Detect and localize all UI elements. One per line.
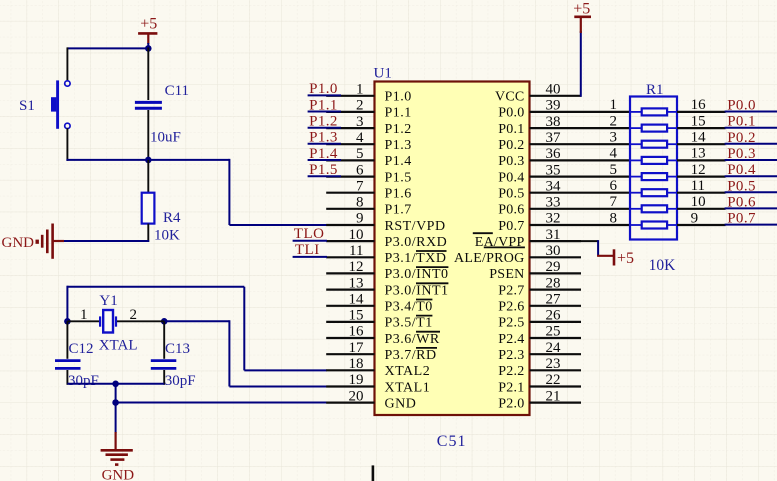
svg-text:P1.2: P1.2 (309, 114, 338, 130)
wire net TLO (293, 240, 327, 242)
svg-text:XTAL: XTAL (99, 337, 138, 353)
wire net P0.3 (725, 159, 777, 161)
svg-text:P1.5: P1.5 (309, 162, 338, 178)
svg-text:2: 2 (356, 98, 364, 114)
wire down to Y1 pin 1 (66, 286, 68, 322)
pin 17 (P3.7/RD) (326, 340, 436, 363)
pin 15 (P3.5/T1) (326, 308, 433, 331)
resistor R1 element 8 (610, 210, 699, 228)
overline pin 15 (416, 315, 432, 317)
overline PROG (pin 30) (484, 246, 525, 248)
junction Y1 pin 2 node (161, 318, 168, 325)
svg-text:P1.7: P1.7 (385, 203, 412, 218)
svg-text:P0.0: P0.0 (727, 98, 756, 114)
svg-text:P0.7: P0.7 (498, 219, 524, 234)
pin 40 (VCC) (495, 82, 582, 105)
pin 20 (GND) (326, 388, 416, 411)
wire R1 pin 15 (677, 127, 726, 129)
pin 3 (P1.2) (326, 114, 412, 137)
svg-text:15: 15 (691, 113, 706, 129)
overline pin 14 (416, 299, 432, 301)
svg-text:34: 34 (546, 178, 562, 194)
svg-text:13: 13 (349, 275, 364, 291)
resistor R1 element 3 (610, 130, 707, 148)
svg-text:29: 29 (546, 259, 561, 275)
wire R4 to GND (53, 240, 150, 242)
svg-text:P1.4: P1.4 (309, 146, 338, 162)
overline EA (pin 31) (473, 232, 493, 234)
wire net P1.1 (308, 111, 341, 113)
wire down to XTAL1 (228, 320, 230, 386)
svg-text:PSEN: PSEN (489, 267, 524, 282)
svg-text:+5: +5 (140, 16, 157, 33)
svg-text:P0.6: P0.6 (498, 203, 524, 218)
junction GND wire crossing (112, 399, 119, 406)
pin 31 (EA/VPP) (475, 227, 581, 250)
svg-text:+5: +5 (573, 1, 590, 18)
wire to pin 19 XTAL1 (229, 386, 327, 388)
svg-text:10K: 10K (154, 228, 180, 244)
svg-text:P0.4: P0.4 (727, 162, 756, 178)
svg-text:8: 8 (356, 195, 364, 211)
svg-text:30pF: 30pF (165, 373, 196, 389)
wire net P0.6 (725, 207, 777, 209)
pin 30 (ALE/PROG) (454, 243, 581, 266)
svg-text:U1: U1 (374, 66, 392, 82)
junction crystal gnd node (112, 381, 119, 388)
svg-text:20: 20 (349, 388, 364, 404)
pin 35 (P0.4) (498, 162, 630, 185)
svg-text:3: 3 (610, 130, 618, 146)
svg-text:31: 31 (546, 227, 561, 243)
wire from S1 pin 2 (66, 128, 68, 161)
pin 11 (P3.1/TXD) (326, 243, 446, 266)
svg-text:P0.4: P0.4 (498, 170, 524, 185)
wire net P0.5 (725, 191, 777, 193)
wire EA/VPP net (581, 240, 598, 242)
resistor R1 element 2 (610, 113, 706, 131)
svg-text:P0.2: P0.2 (498, 138, 524, 153)
svg-text:7: 7 (356, 178, 364, 194)
svg-text:15: 15 (349, 308, 364, 324)
svg-text:P0.7: P0.7 (727, 211, 756, 227)
pin 27 (P2.6) (498, 292, 581, 315)
svg-text:30: 30 (546, 243, 561, 259)
svg-text:32: 32 (546, 211, 561, 227)
svg-text:3: 3 (356, 114, 364, 130)
svg-text:6: 6 (356, 162, 364, 178)
svg-text:GND: GND (102, 468, 135, 481)
svg-text:8: 8 (610, 210, 618, 226)
svg-text:P1.3: P1.3 (385, 138, 412, 153)
junction +5 node (145, 45, 152, 52)
svg-text:30pF: 30pF (68, 373, 99, 389)
wire C12-C13 bottom (67, 383, 164, 385)
svg-text:P3.7/RD: P3.7/RD (385, 348, 437, 363)
resistor R1 element 5 (610, 162, 706, 180)
wire net P0.7 (725, 224, 777, 226)
wire to pin 20 GND (116, 402, 327, 404)
capacitor C12 (55, 321, 81, 385)
svg-text:ALE/PROG: ALE/PROG (454, 251, 524, 266)
svg-text:P0.0: P0.0 (498, 106, 524, 121)
wire R1 pin 11 (677, 192, 726, 194)
pin 18 (XTAL2) (326, 356, 430, 379)
wire R1 pin 12 (677, 176, 726, 178)
wire net P1.2 (308, 127, 341, 129)
svg-text:5: 5 (610, 162, 618, 178)
svg-text:28: 28 (546, 275, 561, 291)
svg-text:P2.4: P2.4 (498, 332, 524, 347)
wire reset node horizontal (66, 159, 229, 161)
svg-text:P0.6: P0.6 (727, 194, 756, 210)
svg-text:P1.3: P1.3 (309, 130, 338, 146)
wire to pin 9 RST (229, 224, 327, 226)
svg-text:XTAL1: XTAL1 (385, 380, 431, 395)
svg-text:P2.6: P2.6 (498, 300, 524, 315)
svg-text:10uF: 10uF (150, 130, 181, 146)
svg-text:9: 9 (356, 211, 364, 227)
svg-text:C51: C51 (437, 433, 467, 450)
svg-text:21: 21 (546, 388, 561, 404)
svg-text:10K: 10K (649, 257, 677, 274)
wire down to RST (228, 159, 230, 225)
wire crystal top (67, 286, 244, 288)
svg-text:P0.2: P0.2 (727, 130, 756, 146)
ground GND (bottom earth) (101, 432, 133, 465)
svg-text:TLI: TLI (295, 242, 320, 258)
svg-text:P2.5: P2.5 (498, 316, 524, 331)
power +5 (top right) (573, 1, 591, 33)
svg-text:39: 39 (546, 98, 561, 114)
op-amp U1 body (C51 MCU) (375, 82, 530, 416)
wire net P0.0 (725, 111, 777, 113)
svg-text:26: 26 (546, 308, 562, 324)
resistor R4 (142, 160, 155, 242)
pin 28 (P2.7) (498, 275, 581, 298)
pin 5 (P1.4) (326, 146, 412, 169)
pin 22 (P2.1) (498, 372, 581, 395)
wire net P0.2 (725, 143, 777, 145)
pin 6 (P1.5) (326, 162, 412, 185)
svg-text:36: 36 (546, 146, 562, 162)
wire net P1.5 (308, 175, 341, 177)
svg-text:33: 33 (546, 195, 561, 211)
svg-text:6: 6 (610, 178, 618, 194)
svg-text:P3.6/WR: P3.6/WR (385, 332, 440, 347)
svg-text:25: 25 (546, 324, 561, 340)
svg-text:40: 40 (546, 82, 561, 98)
pin 34 (P0.5) (498, 178, 630, 201)
svg-text:P1.0: P1.0 (309, 81, 338, 97)
svg-text:TLO: TLO (294, 226, 325, 242)
switch S1 (51, 80, 70, 128)
svg-text:P1.2: P1.2 (385, 122, 412, 137)
svg-text:XTAL2: XTAL2 (385, 364, 431, 379)
svg-text:P2.3: P2.3 (498, 348, 524, 363)
pin 9 (RST/VPD) (326, 211, 445, 234)
pin 21 (P2.0) (498, 388, 581, 411)
overline pin 12 (416, 266, 448, 268)
wire net P0.1 (725, 127, 777, 129)
pin 19 (XTAL1) (326, 372, 430, 395)
pin 26 (P2.5) (498, 308, 581, 331)
svg-text:+5: +5 (617, 250, 634, 267)
svg-text:P0.3: P0.3 (498, 154, 524, 169)
pin 7 (P1.6) (326, 178, 412, 201)
svg-text:23: 23 (546, 356, 561, 372)
junction reset node (145, 157, 152, 164)
svg-text:P3.1/TXD: P3.1/TXD (385, 251, 447, 266)
svg-text:5: 5 (356, 146, 364, 162)
pin 14 (P3.4/T0) (326, 292, 433, 315)
svg-text:14: 14 (349, 292, 365, 308)
pin 29 (PSEN) (489, 259, 581, 282)
wire R1 pin 9 (677, 224, 726, 226)
power +5 (left) (138, 16, 157, 44)
svg-text:P2.7: P2.7 (498, 283, 524, 298)
pin 16 (P3.6/WR) (326, 324, 440, 347)
svg-text:P1.0: P1.0 (385, 90, 412, 105)
overline pin 17 (416, 347, 437, 349)
wire VCC to +5 (580, 31, 582, 97)
svg-text:C11: C11 (165, 83, 189, 99)
wire +5 stub (147, 43, 149, 48)
svg-text:2: 2 (610, 113, 618, 129)
svg-text:P1.1: P1.1 (309, 97, 338, 113)
svg-text:P1.5: P1.5 (385, 170, 412, 185)
svg-text:P3.0/INT1: P3.0/INT1 (385, 283, 449, 298)
svg-text:P0.5: P0.5 (727, 178, 756, 194)
svg-text:P3.4/T0: P3.4/T0 (385, 300, 433, 315)
svg-text:S1: S1 (19, 98, 35, 114)
wire net P1.3 (308, 143, 341, 145)
pin 2 (P1.1) (326, 98, 412, 121)
pin 36 (P0.3) (498, 146, 630, 169)
svg-text:7: 7 (610, 194, 618, 210)
svg-text:17: 17 (349, 340, 365, 356)
svg-text:38: 38 (546, 114, 561, 130)
svg-text:4: 4 (610, 146, 618, 162)
wire down toward GND (115, 384, 117, 433)
svg-text:RST/VPD: RST/VPD (385, 219, 446, 234)
wire EA down (597, 240, 599, 256)
resistor R1 element 7 (610, 194, 706, 212)
svg-text:VCC: VCC (495, 90, 525, 105)
resistor R1 element 6 (610, 178, 706, 196)
wire R1 pin 16 (677, 111, 726, 113)
svg-text:P3.0/RXD: P3.0/RXD (385, 235, 448, 250)
svg-text:GND: GND (385, 396, 417, 411)
pin 38 (P0.1) (498, 114, 630, 137)
svg-text:P1.1: P1.1 (385, 106, 412, 121)
svg-text:P2.1: P2.1 (498, 380, 524, 395)
svg-text:4: 4 (356, 130, 364, 146)
svg-text:P2.0: P2.0 (498, 396, 524, 411)
svg-text:24: 24 (546, 340, 562, 356)
svg-text:12: 12 (349, 259, 364, 275)
resistor R1 element 4 (610, 146, 706, 164)
wire net P0.4 (725, 175, 777, 177)
svg-text:10: 10 (349, 227, 364, 243)
junction Y1 pin 1 node (64, 318, 71, 325)
ground GND (left power ground) (36, 224, 65, 259)
svg-text:18: 18 (349, 356, 364, 372)
pin 8 (P1.7) (326, 195, 412, 218)
resistor network R1 box (630, 97, 677, 240)
svg-text:1: 1 (610, 97, 618, 113)
wire top of reset (67, 47, 149, 49)
svg-text:C13: C13 (165, 341, 190, 357)
pin 12 (P3.0/INT0) (326, 259, 448, 282)
wire net P1.0 (308, 94, 341, 96)
svg-text:1: 1 (80, 307, 88, 323)
svg-text:27: 27 (546, 292, 562, 308)
svg-text:R1: R1 (646, 82, 664, 98)
wire Y1 pin2 to corner (164, 320, 229, 322)
pin 25 (P2.4) (498, 324, 581, 347)
svg-text:22: 22 (546, 372, 561, 388)
overline pin 11 (416, 250, 447, 252)
overline pin 13 (416, 282, 448, 284)
pin 39 (P0.0) (498, 98, 630, 121)
pin 10 (P3.0/RXD) (326, 227, 447, 250)
svg-text:R4: R4 (163, 210, 181, 226)
svg-text:37: 37 (546, 130, 562, 146)
svg-text:16: 16 (691, 97, 707, 113)
svg-text:19: 19 (349, 372, 364, 388)
pin 4 (P1.3) (326, 130, 412, 153)
svg-text:11: 11 (349, 243, 363, 259)
wire (bottom stub) (372, 465, 375, 481)
svg-text:C12: C12 (69, 341, 94, 357)
svg-text:P3.5/T1: P3.5/T1 (385, 316, 433, 331)
wire R1 pin 10 (677, 208, 726, 210)
svg-text:2: 2 (130, 307, 138, 323)
svg-text:P2.2: P2.2 (498, 364, 524, 379)
svg-text:P1.6: P1.6 (385, 187, 412, 202)
wire R1 pin 14 (677, 143, 726, 145)
wire R1 pin 13 (677, 159, 726, 161)
power +5 (EA/VPP) (597, 249, 634, 267)
pin 37 (P0.2) (498, 130, 630, 153)
capacitor C11 (135, 47, 162, 160)
wire net P1.4 (308, 159, 341, 161)
resistor R1 element 1 (610, 97, 707, 115)
svg-text:1: 1 (356, 82, 364, 98)
wire to pin 18 XTAL2 (244, 369, 327, 371)
svg-text:Y1: Y1 (99, 293, 117, 309)
overline pin 16 (416, 331, 440, 333)
svg-text:35: 35 (546, 162, 561, 178)
svg-text:P0.1: P0.1 (498, 122, 524, 137)
svg-text:GND: GND (2, 235, 35, 251)
svg-text:P0.3: P0.3 (727, 146, 756, 162)
wire down to XTAL2 (243, 287, 245, 371)
svg-text:16: 16 (349, 324, 365, 340)
svg-text:P3.0/INT0: P3.0/INT0 (385, 267, 449, 282)
svg-text:P0.5: P0.5 (498, 187, 524, 202)
pin 1 (P1.0) (326, 82, 412, 105)
wire to S1 pin 1 (66, 47, 68, 81)
pin 33 (P0.6) (498, 195, 630, 218)
pin 32 (P0.7) (498, 211, 630, 234)
crystal Y1 (67, 310, 164, 333)
wire net TLI (293, 256, 327, 258)
pin 23 (P2.2) (498, 356, 581, 379)
pin 24 (P2.3) (498, 340, 581, 363)
pin 13 (P3.0/INT1) (326, 275, 448, 298)
capacitor C13 (151, 321, 177, 385)
svg-text:P1.4: P1.4 (385, 154, 412, 169)
svg-text:P0.1: P0.1 (727, 114, 756, 130)
